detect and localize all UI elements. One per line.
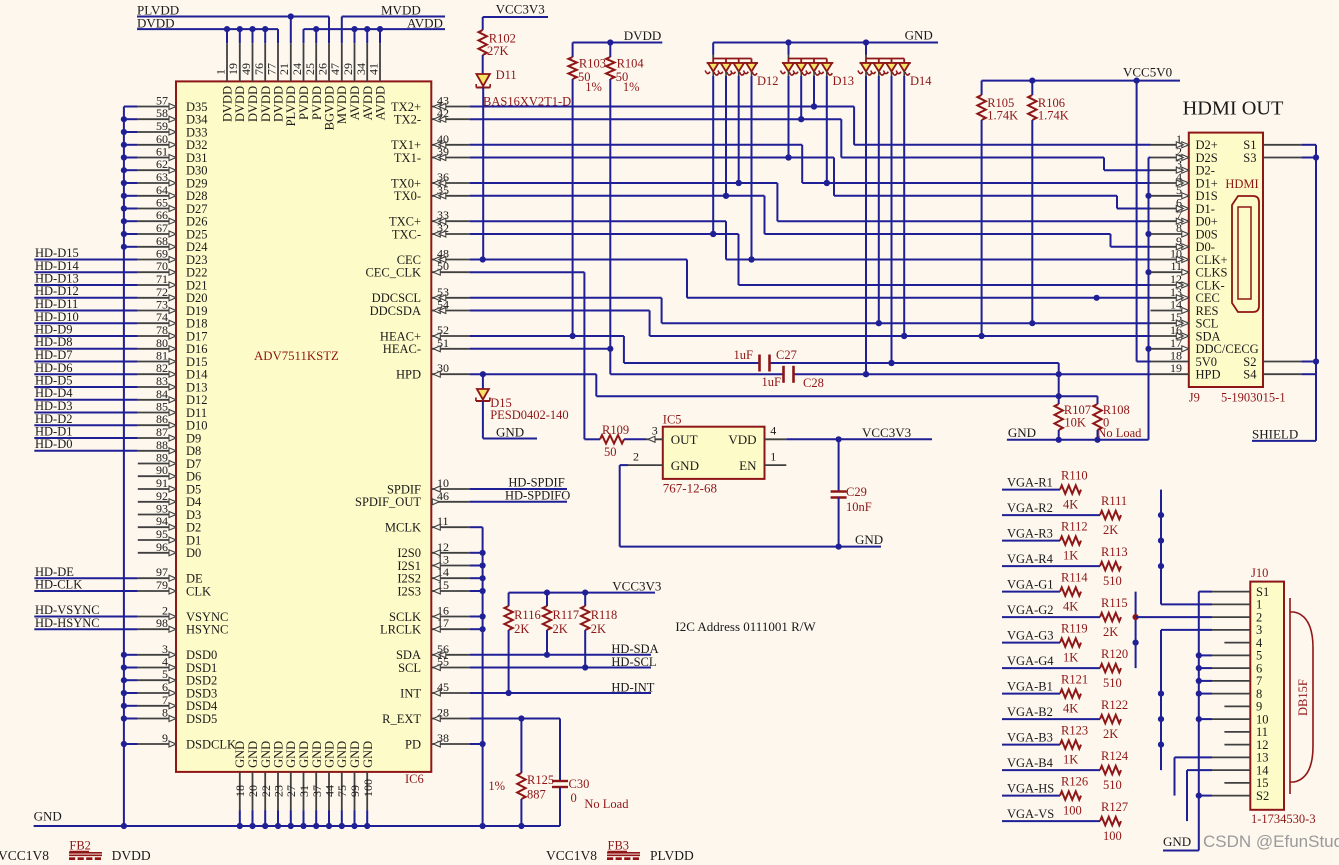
TVS diode array D12 [705, 43, 778, 263]
svg-text:41: 41 [367, 63, 381, 75]
IC6 right pins with numbers and arrows [355, 94, 470, 752]
svg-text:VGA-HS: VGA-HS [1007, 782, 1054, 796]
svg-text:HDMI OUT: HDMI OUT [1183, 98, 1284, 120]
svg-text:1.74K: 1.74K [1038, 109, 1069, 123]
wire net TX2+ [470, 103, 1151, 144]
resistor R110 4K on VGA-R1 [490, 469, 1161, 865]
svg-text:GND: GND [855, 532, 883, 547]
wire net HD-SCL [470, 630, 657, 671]
svg-text:I2S3: I2S3 [397, 584, 421, 598]
DB15F shell symbol [1290, 598, 1313, 794]
svg-text:9: 9 [162, 731, 168, 745]
svg-text:OUT: OUT [671, 432, 698, 447]
svg-text:1K: 1K [1063, 753, 1078, 767]
ground rail near R107 R108 with GND label [1007, 425, 1149, 443]
wire J9 shield net to SHIELD [1252, 145, 1319, 442]
wire HD-VSYNC [34, 603, 138, 617]
svg-text:1uF: 1uF [734, 348, 754, 362]
power net DVDD top rail [137, 16, 278, 44]
resistor R108 0 No Load [1093, 396, 1142, 440]
wire net HPD [470, 371, 1098, 399]
svg-text:R112: R112 [1061, 520, 1088, 534]
power net VCC3V3 rail above R116 R117 R118 [509, 579, 662, 596]
svg-text:S3: S3 [1243, 151, 1256, 165]
svg-text:TXC-: TXC- [392, 227, 421, 241]
wire left ground bus [121, 107, 138, 830]
svg-text:GND: GND [496, 425, 524, 440]
svg-text:C29: C29 [846, 485, 867, 499]
svg-text:AVDD: AVDD [374, 86, 388, 121]
svg-text:PD: PD [405, 737, 421, 751]
svg-text:ADV7511KSTZ: ADV7511KSTZ [254, 349, 339, 363]
ground rail bottom with GND label [34, 809, 560, 830]
svg-text:767-12-68: 767-12-68 [663, 481, 717, 496]
svg-text:DSDCLK: DSDCLK [186, 737, 236, 751]
resistor R124 510 on VGA-B4 [770, 749, 1161, 865]
svg-text:DVDD: DVDD [624, 28, 662, 43]
svg-text:VGA-G1: VGA-G1 [1007, 578, 1054, 592]
svg-text:No Load: No Load [584, 797, 629, 811]
svg-text:887: 887 [527, 788, 546, 802]
connector J9 shield pins S1 S3 S2 S4 [1243, 138, 1301, 382]
svg-text:100: 100 [1063, 804, 1082, 818]
svg-text:EN: EN [739, 458, 757, 473]
svg-text:50: 50 [604, 445, 617, 459]
svg-text:VCC5V0: VCC5V0 [1123, 65, 1172, 80]
svg-text:IC5: IC5 [663, 413, 682, 427]
wire audio unused-input ground bus [470, 527, 486, 829]
svg-text:S4: S4 [1243, 368, 1257, 382]
resistor R126 100 on VGA-HS [796, 775, 1175, 865]
svg-text:4K: 4K [1063, 498, 1078, 512]
wire net TX1+ [470, 145, 1151, 186]
svg-text:3: 3 [652, 424, 658, 438]
svg-text:GND: GND [1163, 834, 1191, 849]
capacitor C29 10nF [831, 439, 872, 546]
wire net CEC_CLK to R109 [470, 272, 646, 439]
svg-text:1K: 1K [1063, 651, 1078, 665]
svg-text:R114: R114 [1061, 571, 1088, 585]
svg-text:510: 510 [1103, 676, 1122, 690]
ferrite bead FB2 VCC1V8 to DVDD [0, 839, 151, 864]
svg-text:2K: 2K [553, 622, 568, 636]
svg-text:CSDN @EfunStudy: CSDN @EfunStudy [1203, 832, 1339, 851]
svg-text:2K: 2K [1103, 523, 1118, 537]
wire net CEC [470, 256, 1151, 301]
wires HD-D15..HD-D0 input labels [34, 246, 138, 451]
svg-text:R127: R127 [1101, 800, 1128, 814]
note I2C address [675, 619, 816, 634]
svg-text:R116: R116 [514, 608, 541, 622]
svg-text:1%: 1% [585, 80, 602, 94]
connector J10 DB15F body [1250, 566, 1315, 826]
svg-text:4K: 4K [1063, 600, 1078, 614]
wire J10 ground bus to GND [1163, 592, 1212, 851]
svg-text:TX2-: TX2- [394, 113, 421, 127]
svg-text:R124: R124 [1101, 749, 1129, 763]
wire IC5 VDD to VCC3V3 [786, 425, 932, 442]
svg-text:R103: R103 [579, 57, 606, 71]
IC IC5 767-12-68 [628, 413, 786, 496]
svg-text:2K: 2K [514, 622, 529, 636]
svg-text:No Load: No Load [1097, 426, 1142, 440]
svg-text:VCC1V8: VCC1V8 [546, 848, 597, 860]
resistor R111 2K on VGA-R2 [515, 494, 1161, 865]
wire IC5 GND return to GND [620, 465, 883, 550]
svg-text:HSYNC: HSYNC [186, 623, 228, 637]
svg-text:0: 0 [571, 791, 577, 805]
svg-text:C27: C27 [776, 348, 797, 362]
svg-text:VGA-R3: VGA-R3 [1007, 527, 1053, 541]
wire HD-DE [34, 565, 138, 579]
IC6 top power pins [214, 43, 388, 130]
diode D11 BAS16XV2T1-D [476, 68, 571, 260]
svg-text:510: 510 [1103, 574, 1122, 588]
svg-text:GND: GND [905, 28, 933, 43]
svg-text:R115: R115 [1101, 596, 1128, 610]
wire HDMI shield pins ground bus [1145, 158, 1151, 440]
resistor R116 2K [504, 593, 540, 636]
capacitor C27 1uF [734, 348, 797, 372]
svg-text:VDD: VDD [728, 432, 756, 447]
svg-text:4K: 4K [1063, 702, 1078, 716]
svg-text:HD-D0: HD-D0 [35, 437, 73, 451]
resistor R125 887 1% [488, 719, 554, 830]
resistor R102 27K [479, 2, 549, 75]
wire HPD to HDMI pin19 junction [1058, 374, 1060, 396]
svg-text:19: 19 [1170, 361, 1182, 375]
wire net DDCSCL to HDMI SCL [470, 298, 1151, 327]
svg-text:GND: GND [34, 809, 62, 824]
svg-text:C30: C30 [569, 777, 590, 791]
IC6 bottom GND pins [233, 741, 375, 810]
svg-text:HD-SCL: HD-SCL [611, 655, 656, 669]
svg-text:D12: D12 [757, 74, 779, 88]
svg-text:MCLK: MCLK [385, 521, 421, 535]
wire net DDCSDA to HDMI SDA [470, 311, 1151, 340]
svg-text:1%: 1% [488, 779, 505, 793]
power net VCC5V0 rail [982, 65, 1180, 84]
wire net HEAC- through C28 to HDMI HPD pin [470, 346, 1151, 378]
wire VGA blue channel junction to J10 pin3 [1158, 630, 1212, 770]
ferrite bead FB3 VCC1V8 to PLVDD [546, 839, 694, 864]
wire net TX2- [470, 116, 1151, 170]
svg-text:2: 2 [633, 449, 639, 463]
capacitor C30 0 No Load [552, 719, 629, 827]
wire net HD-SDA [470, 630, 659, 658]
wire VGA green channel junction to J10 pin2 [1133, 592, 1213, 669]
svg-text:HEAC-: HEAC- [383, 342, 421, 356]
wire net HEAC+ through C27 [470, 333, 1059, 374]
svg-text:R120: R120 [1101, 647, 1128, 661]
IC IC6 ADV7511KSTZ body [176, 81, 431, 786]
svg-text:VCC1V8: VCC1V8 [0, 848, 49, 860]
wire net TXC- [470, 231, 1151, 285]
resistor R122 2K on VGA-B2 [719, 698, 1161, 865]
svg-text:TX0-: TX0- [394, 189, 421, 203]
svg-text:CLK: CLK [186, 584, 211, 598]
svg-text:VGA-B4: VGA-B4 [1007, 756, 1054, 770]
svg-text:1%: 1% [623, 80, 640, 94]
svg-text:4: 4 [770, 424, 776, 438]
svg-text:1-1734530-3: 1-1734530-3 [1251, 812, 1316, 826]
svg-text:98: 98 [156, 616, 168, 630]
svg-text:TX1-: TX1- [394, 151, 421, 165]
svg-text:100: 100 [361, 779, 375, 797]
svg-text:D11: D11 [496, 68, 517, 82]
svg-text:R110: R110 [1061, 469, 1088, 483]
wire HD-SPDIFO label [470, 489, 571, 503]
svg-text:CEC_CLK: CEC_CLK [365, 266, 421, 280]
resistor R117 2K [543, 593, 579, 636]
svg-text:R119: R119 [1061, 622, 1088, 636]
svg-text:2K: 2K [591, 622, 606, 636]
svg-text:VGA-B3: VGA-B3 [1007, 731, 1053, 745]
svg-text:LRCLK: LRCLK [380, 623, 421, 637]
resistor R123 1K on VGA-B3 [745, 724, 1161, 865]
svg-text:VGA-R2: VGA-R2 [1007, 501, 1053, 515]
connector J9 body 5-1903015-1 [1189, 133, 1286, 405]
svg-text:IC6: IC6 [405, 772, 424, 786]
svg-text:VGA-G3: VGA-G3 [1007, 629, 1054, 643]
svg-text:46: 46 [437, 489, 449, 503]
resistor R107 10K [1055, 396, 1091, 440]
svg-text:VCC3V3: VCC3V3 [862, 425, 911, 440]
svg-text:510: 510 [1103, 778, 1122, 792]
svg-text:2K: 2K [1103, 625, 1118, 639]
svg-text:VGA-B1: VGA-B1 [1007, 680, 1053, 694]
resistor R121 4K on VGA-B1 [694, 673, 1161, 865]
svg-text:HDMI: HDMI [1225, 177, 1258, 191]
svg-text:27K: 27K [487, 44, 509, 58]
svg-text:INT: INT [400, 686, 421, 700]
svg-text:D0: D0 [186, 546, 201, 560]
power net AVDD top rail [304, 16, 446, 44]
resistor R114 4K on VGA-G1 [592, 571, 1136, 865]
svg-text:1: 1 [770, 449, 776, 463]
resistor R127 100 on VGA-VS [821, 800, 1187, 865]
resistor R119 1K on VGA-G3 [643, 622, 1136, 865]
resistor R113 510 on VGA-R4 [566, 545, 1161, 865]
svg-text:HD-INT: HD-INT [611, 680, 654, 694]
svg-text:1K: 1K [1063, 549, 1078, 563]
svg-text:SCL: SCL [398, 661, 421, 675]
wire HD-HSYNC [34, 616, 138, 630]
svg-text:GND: GND [361, 741, 375, 768]
svg-text:GND: GND [1008, 425, 1036, 440]
resistor R112 1K on VGA-R3 [541, 520, 1161, 865]
svg-text:C28: C28 [803, 376, 824, 390]
svg-text:FB2: FB2 [69, 839, 91, 853]
svg-text:HD-SPDIF: HD-SPDIF [508, 476, 564, 490]
HDMI receptacle symbol inside J9 [1232, 196, 1259, 312]
wire net R_EXT [470, 715, 560, 721]
wire net TX0- [470, 193, 1151, 247]
svg-text:SPDIF_OUT: SPDIF_OUT [355, 495, 421, 509]
TVS diode array D13 [781, 43, 855, 187]
power net PLVDD top rail [137, 3, 329, 44]
svg-text:SHIELD: SHIELD [1252, 427, 1298, 442]
svg-text:5-1903015-1: 5-1903015-1 [1221, 391, 1286, 405]
svg-text:79: 79 [156, 578, 168, 592]
svg-text:2K: 2K [1103, 727, 1118, 741]
ground stub under D15 with GND label [483, 425, 537, 440]
ground rail above TVS diode arrays with GND label [713, 28, 938, 46]
connector J9 HDMI OUT title [1183, 98, 1284, 120]
svg-text:HD-CLK: HD-CLK [35, 578, 82, 592]
svg-text:10K: 10K [1064, 416, 1086, 430]
svg-text:10nF: 10nF [846, 500, 872, 514]
wire VCC5V0 to HDMI 5V0 pin [1137, 81, 1151, 362]
svg-text:R126: R126 [1061, 775, 1088, 789]
wire VGA-VS to J10 pin14 [1187, 770, 1212, 821]
resistor R109 50 [600, 423, 629, 459]
svg-text:8: 8 [162, 706, 168, 720]
wire net TX1- [470, 154, 1151, 208]
svg-text:100: 100 [1103, 829, 1122, 843]
wire HD-SPDIF label [470, 476, 567, 490]
svg-text:HD-HSYNC: HD-HSYNC [35, 616, 100, 630]
svg-text:VCC3V3: VCC3V3 [496, 2, 545, 17]
svg-text:VGA-G4: VGA-G4 [1007, 654, 1054, 668]
svg-text:VGA-VS: VGA-VS [1007, 807, 1054, 821]
svg-text:96: 96 [156, 540, 168, 554]
wire net TX0+ [470, 180, 1151, 221]
resistor R106 1.74K [1028, 81, 1069, 324]
resistor R104 50 1% [606, 43, 644, 349]
svg-text:VGA-R1: VGA-R1 [1007, 476, 1053, 490]
svg-text:R121: R121 [1061, 673, 1088, 687]
connector J9 pins 1-19 [1151, 132, 1259, 382]
svg-text:D13: D13 [833, 74, 855, 88]
svg-text:R123: R123 [1061, 724, 1088, 738]
resistor R120 510 on VGA-G4 [668, 647, 1136, 865]
resistor R115 2K on VGA-G2 [617, 596, 1136, 865]
svg-text:DDCSDA: DDCSDA [370, 304, 421, 318]
connector J10 pins [1212, 585, 1269, 803]
svg-text:BAS16XV2T1-D: BAS16XV2T1-D [483, 95, 571, 109]
wire VGA red channel junction to J10 pin1 [1158, 490, 1212, 605]
svg-text:PESD0402-140: PESD0402-140 [490, 408, 568, 422]
svg-text:VGA-R4: VGA-R4 [1007, 552, 1054, 566]
diode D15 PESD0402-140 [476, 374, 569, 438]
svg-text:HPD: HPD [1196, 368, 1221, 382]
wire net TXC+ [470, 221, 1151, 262]
svg-text:R122: R122 [1101, 698, 1128, 712]
svg-text:1.74K: 1.74K [987, 109, 1018, 123]
IC6 left pins with numbers and input arrows [138, 94, 236, 752]
svg-text:DVDD: DVDD [112, 848, 151, 860]
svg-text:R_EXT: R_EXT [382, 712, 421, 726]
svg-text:R113: R113 [1101, 545, 1128, 559]
svg-text:HPD: HPD [396, 368, 421, 382]
TVS diode array D14 [858, 43, 932, 378]
svg-text:J9: J9 [1189, 391, 1200, 405]
wire VGA-HS to J10 pin13 [1175, 757, 1213, 795]
resistor R118 2K [581, 593, 617, 636]
wire net HD-INT [470, 630, 655, 696]
svg-text:R125: R125 [527, 773, 554, 787]
svg-text:DB15F: DB15F [1296, 679, 1310, 716]
svg-text:R117: R117 [553, 608, 580, 622]
svg-text:FB3: FB3 [608, 839, 630, 853]
svg-text:1uF: 1uF [762, 375, 782, 389]
svg-text:D14: D14 [910, 74, 932, 88]
svg-text:HD-SPDIFO: HD-SPDIFO [505, 489, 570, 503]
svg-text:VGA-G2: VGA-G2 [1007, 603, 1054, 617]
svg-text:R118: R118 [591, 608, 618, 622]
svg-text:R111: R111 [1101, 494, 1127, 508]
svg-text:DSD5: DSD5 [186, 712, 217, 726]
watermark [1203, 832, 1339, 851]
wire HD-CLK [34, 578, 138, 592]
svg-text:VCC3V3: VCC3V3 [612, 579, 661, 594]
power net MVDD top rail [342, 3, 445, 44]
svg-text:S2: S2 [1256, 789, 1269, 803]
svg-text:PLVDD: PLVDD [650, 848, 694, 860]
svg-text:J10: J10 [1251, 566, 1268, 580]
resistor R105 1.74K [977, 81, 1018, 336]
svg-text:R104: R104 [617, 57, 645, 71]
wire net PD [470, 741, 486, 747]
svg-text:R109: R109 [602, 423, 629, 437]
svg-text:I2C Address 0111001 R/W: I2C Address 0111001 R/W [675, 619, 816, 634]
power net DVDD mid rail [573, 28, 663, 46]
svg-text:GND: GND [671, 458, 699, 473]
capacitor C28 1uF [762, 366, 824, 390]
svg-text:VGA-B2: VGA-B2 [1007, 705, 1053, 719]
resistor R103 50 1% [568, 43, 606, 337]
